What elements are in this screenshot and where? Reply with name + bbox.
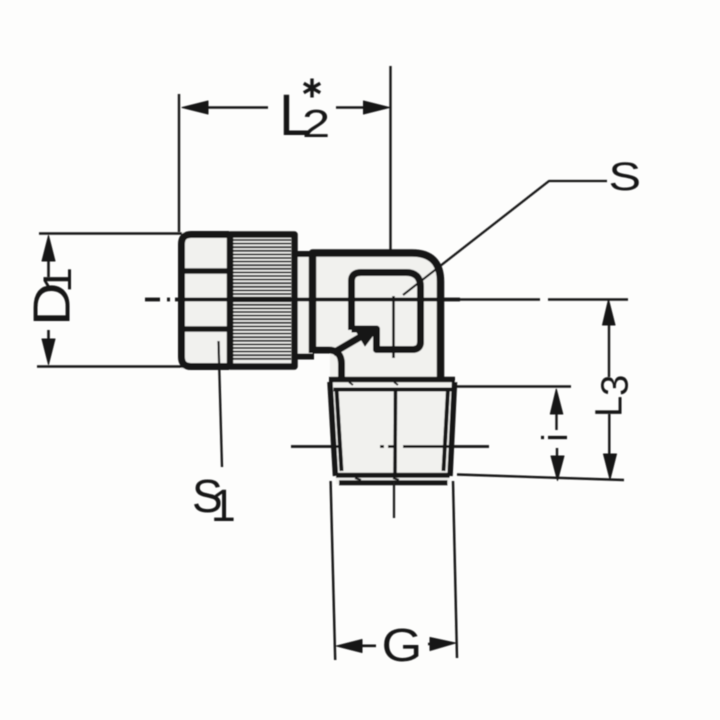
label i (534, 434, 575, 442)
neck between knurl and body (294, 254, 314, 357)
bore inner contour (352, 273, 421, 350)
cone spike with arrowhead (333, 330, 377, 353)
thread bottom face (336, 473, 450, 478)
svg-text:2: 2 (302, 102, 330, 146)
knurl texture (233, 240, 291, 359)
centerline vertical through elbow arm (392, 296, 395, 358)
centerline horizontal main (145, 298, 460, 302)
label S (609, 155, 642, 199)
dimension L3 line and arrows (603, 300, 617, 480)
leader S (403, 181, 607, 295)
dimension i extension top (455, 385, 571, 387)
nut hex body (182, 235, 230, 367)
hex facet line lower (183, 326, 229, 332)
thread tick marks (349, 382, 399, 480)
label L2* (279, 79, 330, 149)
label S1 (192, 470, 236, 531)
dimension L2 extension left (178, 94, 180, 232)
centerline vertical below thread (393, 482, 395, 518)
dimension L3 extension bottom (457, 475, 624, 481)
dimension D1 extension bottom (37, 365, 185, 367)
svg-text:S1: S1 (192, 470, 236, 531)
label L3 (589, 375, 637, 417)
dimension D1 line and arrows (42, 236, 55, 365)
dimension i line and arrows (550, 389, 564, 481)
dimension D1 extension top (39, 232, 182, 234)
male thread outline (329, 380, 455, 483)
leader S1 (219, 341, 223, 467)
elbow body outline (313, 253, 441, 382)
thread right root line (444, 389, 449, 471)
thread left root line (337, 389, 342, 471)
thread left edge (330, 382, 336, 476)
centerline vertical in thread (393, 388, 397, 474)
thread right edge (450, 382, 455, 476)
part body fill (181, 232, 456, 484)
svg-text:D1: D1 (22, 267, 80, 326)
dimension G extension left (331, 481, 336, 660)
label D1 (22, 267, 80, 326)
svg-text:S: S (609, 155, 642, 199)
svg-text:i: i (534, 434, 575, 442)
knurled ring outline (230, 235, 295, 367)
svg-text:L3: L3 (589, 375, 637, 417)
dimension G extension right (453, 481, 457, 658)
thread top face (329, 377, 455, 383)
hex facet line upper (183, 268, 229, 274)
dimension G line and arrows (337, 638, 456, 653)
svg-text:G: G (382, 620, 423, 671)
label G (382, 620, 423, 671)
dimension L2 extension right (389, 66, 391, 252)
dimension L2 line and arrows (182, 101, 390, 114)
centerline dash-dot of thread (291, 445, 489, 448)
